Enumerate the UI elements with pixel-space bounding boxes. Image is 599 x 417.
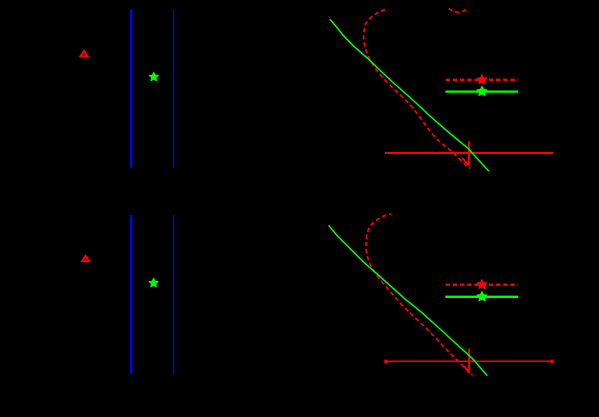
top-right panel: red downward-arrow shaft	[468, 142, 470, 166]
bottom-left panel: blue vertical line 1	[130, 215, 132, 374]
bottom-right panel: red square cap left	[384, 360, 387, 363]
bottom-right panel: red horizontal error-bar line	[386, 360, 554, 362]
top-left panel: green star marker	[149, 72, 158, 80]
bottom-left panel: green star marker	[149, 278, 158, 286]
bottom-right legend: green star marker	[477, 292, 487, 301]
bottom-right panel: green model line	[329, 225, 488, 375]
bottom-right legend: green solid line	[445, 296, 518, 298]
top-right legend: green star marker	[477, 86, 487, 95]
bottom-right panel: red arrowhead flank	[464, 366, 469, 372]
top-left panel: blue vertical line 1	[130, 9, 132, 168]
top-left panel: red open triangle marker	[81, 51, 88, 56]
top-right panel: red arrowhead flank	[462, 158, 468, 165]
top-right panel: red dashed model curve	[364, 10, 470, 169]
bottom-right legend: red star marker	[477, 280, 486, 289]
bottom-right panel: red square cap right	[551, 360, 554, 363]
top-right legend: red dashed line	[446, 79, 519, 81]
top-left panel: blue vertical line 2	[173, 9, 175, 168]
top-right legend: green solid line	[445, 90, 518, 92]
bottom-right panel: red downward-arrow shaft	[468, 349, 470, 374]
bottom-right panel: red dashed model curve	[366, 214, 473, 375]
top-right panel: red dashed curve dip segment near top	[449, 9, 467, 13]
bottom-right legend: red dashed line	[446, 284, 519, 286]
bottom-left panel: red open triangle marker	[82, 256, 89, 261]
top-right panel: green model line	[330, 19, 489, 171]
bottom-left panel: blue vertical line 2	[173, 215, 175, 374]
top-right legend: red star marker	[477, 75, 486, 84]
top-right panel: red horizontal error-bar line	[385, 152, 553, 154]
